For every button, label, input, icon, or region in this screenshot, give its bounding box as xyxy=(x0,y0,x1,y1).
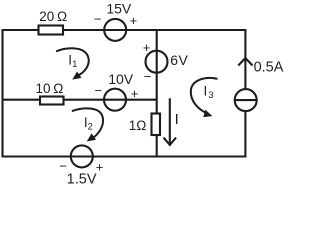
current source 0.5A circle xyxy=(235,89,257,111)
arrowhead 0.5A on right wire xyxy=(238,58,252,66)
svg-text:1.5V: 1.5V xyxy=(67,172,97,187)
wire middle horizontal xyxy=(2,99,157,101)
wire bottom horizontal xyxy=(2,155,246,157)
arrowhead of I3 xyxy=(203,110,212,118)
current source 0.5A bar xyxy=(235,99,257,101)
svg-text:I2: I2 xyxy=(84,115,93,133)
wire right vertical upper segment xyxy=(244,29,246,88)
wire right vertical lower segment xyxy=(244,111,246,157)
resistor R 10Ω body xyxy=(40,97,64,105)
voltage source 6V circle xyxy=(146,51,168,73)
svg-text:+: + xyxy=(130,13,138,28)
svg-text:0.5A: 0.5A xyxy=(254,59,284,75)
svg-text:10 Ω: 10 Ω xyxy=(35,81,63,96)
arrowhead of I2 xyxy=(87,133,96,141)
svg-text:−: − xyxy=(144,69,152,84)
svg-text:1Ω: 1Ω xyxy=(129,118,147,133)
voltage source 15V circle xyxy=(104,19,126,41)
svg-text:I1: I1 xyxy=(68,52,77,70)
voltage source 1.5V circle xyxy=(71,145,93,167)
mesh current arrow I1 xyxy=(56,48,89,76)
svg-text:I: I xyxy=(175,111,179,128)
arrowhead of I1 xyxy=(72,72,81,80)
resistor R 1Ω body xyxy=(152,114,161,136)
svg-text:20 Ω: 20 Ω xyxy=(39,9,67,24)
wire left vertical xyxy=(1,30,3,157)
svg-text:+: + xyxy=(131,86,139,101)
resistor R 20Ω body xyxy=(39,26,64,35)
svg-text:10V: 10V xyxy=(108,71,134,87)
wire top horizontal xyxy=(2,29,246,31)
wire middle vertical (through 6V, down to bottom) xyxy=(156,30,158,157)
svg-text:15V: 15V xyxy=(106,1,132,17)
mesh current arrow I2 xyxy=(72,108,103,138)
mesh current arrow I3 xyxy=(191,78,218,114)
svg-text:−: − xyxy=(59,159,67,174)
svg-text:I3: I3 xyxy=(204,83,214,101)
svg-text:+: + xyxy=(96,160,104,175)
svg-text:−: − xyxy=(94,12,102,27)
voltage source 10V circle xyxy=(104,89,126,111)
svg-text:−: − xyxy=(95,83,103,98)
svg-text:+: + xyxy=(143,40,151,55)
current arrow I (down, beside 1Ω) xyxy=(164,98,176,145)
svg-text:6V: 6V xyxy=(170,52,188,68)
